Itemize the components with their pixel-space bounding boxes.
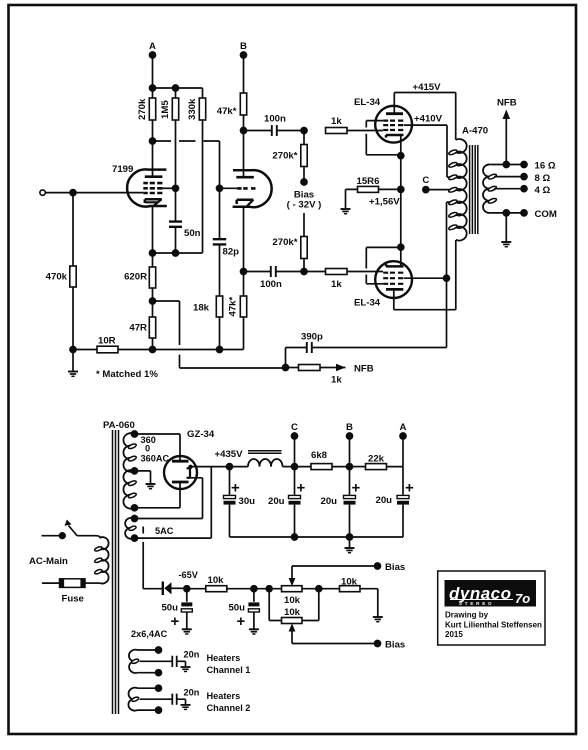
resistor 6k8 [295, 450, 350, 470]
capacitor 20u C [268, 467, 306, 537]
svg-text:82p: 82p [223, 247, 240, 258]
wire bias winding feed [143, 550, 162, 589]
svg-text:2015: 2015 [445, 630, 463, 639]
node COM [521, 209, 557, 220]
wire pot right [302, 588, 319, 590]
tube 7199 pentode envelope [127, 169, 167, 206]
svg-text:B: B [240, 41, 247, 52]
svg-text:+415V: +415V [413, 82, 442, 93]
resistor 330k [187, 88, 206, 253]
EL-34 lower grids [383, 273, 403, 284]
svg-text:5AC: 5AC [155, 526, 174, 536]
svg-text:+410V: +410V [414, 114, 443, 125]
svg-text:AC-Main: AC-Main [29, 556, 68, 567]
svg-text:360AC: 360AC [141, 454, 170, 464]
resistor 270k [137, 88, 156, 141]
svg-text:1k: 1k [331, 279, 342, 290]
svg-text:Bias: Bias [385, 640, 405, 651]
resistor 15R6 [346, 176, 401, 208]
PA-060 core [113, 430, 119, 714]
svg-text:1k: 1k [331, 375, 342, 386]
GZ-34 cathode [187, 467, 191, 478]
capacitor 50u first [161, 589, 192, 630]
svg-text:NFB: NFB [354, 364, 374, 375]
ground COM [501, 213, 511, 247]
resistor 1k NFB [286, 365, 343, 386]
+415V plate wire [394, 82, 455, 140]
resistor 620R [124, 253, 156, 301]
node A [149, 41, 156, 58]
+410V screen wire upper [404, 114, 456, 177]
ground symbol left [68, 350, 78, 377]
potentiometer 10k lower [269, 589, 377, 644]
svg-text:20u: 20u [268, 496, 285, 507]
svg-text:10k: 10k [208, 575, 225, 586]
node choke out / C feed [292, 464, 298, 470]
capacitor 390p [286, 278, 447, 367]
svg-text:EL-34: EL-34 [354, 97, 381, 108]
resistor 1M5 [160, 88, 179, 188]
capacitor 30u [224, 467, 256, 537]
GZ-34 plate upper [135, 434, 189, 461]
node Bias upper [375, 562, 406, 573]
svg-text:20u: 20u [321, 496, 338, 507]
node B bottom rail [347, 464, 353, 470]
svg-text:15R6: 15R6 [357, 176, 380, 187]
wire A down [152, 55, 154, 88]
wire cathode to +435V [190, 466, 230, 468]
diode bias rectifier [163, 570, 199, 595]
node rail left [70, 347, 76, 353]
wire 8 ohm tap [494, 176, 524, 178]
bottom filter rail [230, 536, 404, 538]
wire pentode screen to 1M5 bottom [162, 187, 175, 189]
svg-text:100n: 100n [264, 114, 286, 125]
svg-text:10k: 10k [284, 607, 301, 618]
node 8 ohm [521, 173, 551, 184]
transformer A-470 secondary winding [483, 164, 497, 212]
node B bottom [346, 422, 353, 467]
svg-text:+: + [231, 480, 240, 497]
node C bottom [291, 422, 298, 467]
svg-text:10k: 10k [341, 577, 358, 588]
ground rail wire [73, 349, 244, 351]
HV center tap ground [135, 471, 156, 489]
node triode grid [217, 185, 223, 191]
capacitor 100n upper [244, 114, 305, 137]
capacitor 50u second [228, 589, 259, 630]
EL-34 upper cathode [386, 135, 404, 156]
node 47R bottom on rail [150, 347, 156, 353]
svg-text:50u: 50u [228, 603, 245, 614]
wire 16ohm tap [490, 164, 524, 166]
svg-text:47k*: 47k* [228, 296, 239, 316]
resistor 10k third [319, 577, 378, 617]
node -65V / 50u [184, 586, 190, 592]
dashed winding divider [142, 527, 144, 551]
PA-060 HV secondary [123, 433, 134, 509]
node 5AC bottom [132, 535, 138, 541]
capacitor 20u A [376, 467, 415, 537]
svg-text:Heaters: Heaters [207, 691, 241, 701]
svg-text:+435V: +435V [215, 449, 244, 460]
svg-text:470k: 470k [46, 272, 68, 283]
node B [240, 41, 247, 58]
svg-text:100n: 100n [260, 279, 282, 290]
resistor 470k [46, 193, 77, 350]
node NFB junction [283, 365, 289, 371]
svg-text:-65V: -65V [179, 570, 199, 580]
7199 triode plate [236, 131, 254, 178]
svg-text:1k: 1k [331, 116, 342, 127]
capacitor 100n lower [244, 266, 305, 290]
resistor 270k* upper [272, 131, 307, 183]
node 620R/47R junction [150, 298, 156, 304]
resistor 10k bias 1 [187, 575, 254, 592]
capacitor 50n [169, 188, 201, 253]
svg-text:Kurt Lilienthal Steffensen: Kurt Lilienthal Steffensen [445, 621, 542, 630]
ground 50u first [182, 629, 192, 634]
node 15R6 junction [398, 186, 404, 192]
heaters channel 1 label [207, 653, 251, 675]
wire to 1M5/330k tops [153, 87, 203, 89]
7199 triode cathode [237, 200, 254, 272]
wire C to primary [426, 189, 456, 191]
tube GZ-34 envelope [164, 456, 197, 489]
svg-text:Bias: Bias [385, 562, 405, 573]
svg-text:50n: 50n [184, 228, 201, 239]
NFB arrow up [497, 98, 517, 165]
HV labels [141, 435, 170, 464]
resistor 1k upper [326, 116, 384, 134]
node pots right [316, 586, 322, 592]
svg-text:+: + [405, 480, 414, 497]
node 18k bottom on rail [217, 347, 223, 353]
node pots left [266, 586, 272, 592]
wire input [45, 192, 143, 194]
svg-text:270k*: 270k* [272, 237, 297, 248]
resistor 1k lower [304, 269, 383, 291]
node 16 ohm [521, 161, 556, 172]
node triode cathode/100n [241, 269, 247, 275]
GZ-34 plate lower [135, 482, 189, 508]
svg-text:390p: 390p [301, 332, 323, 343]
node Bias lower [375, 640, 406, 651]
svg-text:47k*: 47k* [217, 106, 237, 117]
resistor 18k [193, 296, 223, 350]
node lower 100n junction [301, 269, 307, 275]
wire lower screen [404, 202, 456, 278]
node lower screen/390p [444, 275, 450, 281]
svg-text:+: + [352, 480, 361, 497]
resistor 47k* matched [228, 272, 247, 350]
svg-text:Drawing by: Drawing by [445, 611, 489, 620]
5AC winding [125, 518, 134, 539]
svg-text:18k: 18k [193, 303, 210, 314]
EL-34 upper g3 bracket [366, 121, 401, 155]
node 50n bottom [173, 250, 179, 256]
7199 pentode grids [143, 183, 162, 193]
svg-text:STEREO: STEREO [459, 601, 494, 606]
svg-text:A: A [400, 422, 407, 433]
node 50u second [251, 586, 257, 592]
svg-text:* Matched 1%: * Matched 1% [96, 369, 158, 380]
wire COM tap [490, 212, 524, 214]
wire 4 ohm tap [494, 188, 524, 190]
svg-text:+: + [237, 613, 246, 630]
wire 5AC bottom to +435V [135, 467, 212, 538]
capacitor 82p [213, 188, 239, 296]
node junction under A [150, 85, 156, 91]
capacitor 20n heater 1 [172, 650, 199, 672]
svg-text:10k: 10k [284, 595, 301, 606]
7199 pentode plate [145, 141, 163, 177]
node 47k* junction on 1k line [241, 128, 247, 134]
ground 15R6 [341, 209, 351, 214]
svg-text:( - 32V ): ( - 32V ) [287, 200, 322, 211]
svg-text:A: A [149, 41, 156, 52]
svg-text:Heaters: Heaters [207, 653, 241, 663]
svg-text:+1,56V: +1,56V [369, 197, 400, 208]
node COM ground takeoff [503, 210, 509, 216]
node C center tap [422, 175, 429, 193]
EL-34 upper grids [383, 121, 403, 130]
input terminal [40, 190, 45, 195]
node EL-34 upper cathode junction [398, 153, 404, 159]
EL-34 upper plate [386, 93, 403, 114]
node screen/50n [173, 185, 179, 191]
node 100n/1k/270k* [301, 128, 307, 134]
resistor 22k [350, 454, 404, 470]
7199 pentode cathode [145, 199, 162, 253]
capacitor 20n heater 2 [172, 688, 199, 710]
svg-text:22k: 22k [368, 454, 385, 465]
svg-text:47R: 47R [129, 323, 147, 334]
node NFB takeoff [503, 162, 509, 168]
heater winding 1 [129, 647, 172, 676]
wire to pots [254, 588, 282, 590]
NFB arrow [336, 364, 374, 375]
tube EL-34 upper envelope [375, 106, 412, 143]
svg-text:16 Ω: 16 Ω [535, 161, 556, 172]
svg-text:6k8: 6k8 [311, 450, 328, 461]
resistor 270k* lower [272, 213, 307, 272]
svg-text:NFB: NFB [497, 98, 517, 109]
svg-text:C: C [291, 422, 298, 433]
wire cathode rail [153, 252, 203, 254]
svg-text:GZ-34: GZ-34 [187, 429, 215, 440]
capacitor 20u B [321, 467, 361, 537]
logo box [438, 571, 545, 645]
svg-text:270k*: 270k* [272, 151, 297, 162]
svg-text:COM: COM [535, 209, 557, 220]
resistor 47R [129, 301, 155, 350]
ground filter rail [345, 537, 355, 553]
EL-34 lower cathode [386, 247, 404, 266]
svg-text:+: + [171, 613, 180, 630]
svg-text:50u: 50u [161, 603, 178, 614]
resistor 10R [97, 336, 118, 353]
svg-text:330k: 330k [187, 98, 198, 120]
node A bottom [400, 422, 407, 467]
ground 50u second [249, 629, 259, 634]
node 5AC top [132, 516, 138, 522]
svg-text:270k: 270k [137, 98, 148, 120]
svg-text:Channel 2: Channel 2 [207, 703, 251, 713]
AC mains switch [42, 520, 78, 539]
tube 7199 triode envelope [233, 170, 272, 207]
fuse [42, 579, 85, 605]
node rail B/ground [347, 534, 353, 540]
wire triode grid [220, 187, 238, 189]
svg-text:7199: 7199 [112, 164, 133, 175]
dashed wire pentode plate to 82p line [153, 141, 220, 188]
svg-text:PA-060: PA-060 [103, 420, 135, 431]
svg-text:1M5: 1M5 [160, 100, 171, 119]
resistor 47k* [217, 55, 247, 131]
svg-text:620R: 620R [124, 272, 147, 283]
svg-text:20n: 20n [184, 688, 200, 698]
svg-text:C: C [422, 175, 429, 186]
svg-text:30u: 30u [239, 496, 256, 507]
transformer core [470, 145, 478, 234]
7199 triode grid dashes [237, 187, 255, 190]
wire lower plate to primary bottom [394, 240, 456, 310]
wire 5AC top to cathode [135, 478, 203, 519]
heaters channel 2 label [207, 691, 251, 713]
node HV top [132, 431, 138, 437]
EL-34 lower g3 bracket [366, 247, 401, 283]
choke [230, 451, 295, 467]
tube EL-34 lower envelope [375, 261, 412, 298]
svg-text:4 Ω: 4 Ω [535, 185, 551, 196]
svg-text:Fuse: Fuse [62, 594, 84, 605]
PA-060 primary winding [77, 536, 108, 584]
node plate junction (270k bottom) [150, 138, 156, 144]
node HV center tap [132, 468, 138, 474]
potentiometer 10k upper [282, 566, 378, 606]
node 1M5 top [173, 85, 179, 91]
svg-text:8 Ω: 8 Ω [535, 173, 551, 184]
svg-text:+: + [297, 480, 306, 497]
svg-text:10R: 10R [98, 336, 116, 347]
svg-text:20u: 20u [376, 495, 393, 506]
transformer A-470 primary winding [448, 139, 467, 240]
node Bias tap [287, 179, 322, 211]
svg-text:2x6,4AC: 2x6,4AC [131, 629, 168, 639]
node 4 ohm [521, 185, 551, 196]
node lower cathode junction [398, 244, 404, 250]
ground 10k third [373, 617, 383, 622]
svg-text:7o: 7o [515, 591, 530, 606]
svg-text:20n: 20n [184, 650, 200, 660]
node cathode rail left [150, 250, 156, 256]
wire common cathode line [400, 156, 402, 248]
svg-text:B: B [346, 422, 353, 433]
EL-34 lower plate [386, 289, 403, 309]
node input/470k [70, 190, 76, 196]
logo text [445, 611, 542, 640]
node HV bottom [132, 505, 138, 511]
svg-text:0: 0 [145, 444, 150, 454]
svg-text:EL-34: EL-34 [354, 298, 381, 309]
node rail C [292, 534, 298, 540]
svg-text:Channel 1: Channel 1 [207, 665, 251, 675]
wire NFB feed to cathode [153, 301, 286, 368]
heater winding 2 [128, 685, 171, 713]
svg-text:A-470: A-470 [462, 126, 488, 137]
node +435V [215, 449, 244, 470]
